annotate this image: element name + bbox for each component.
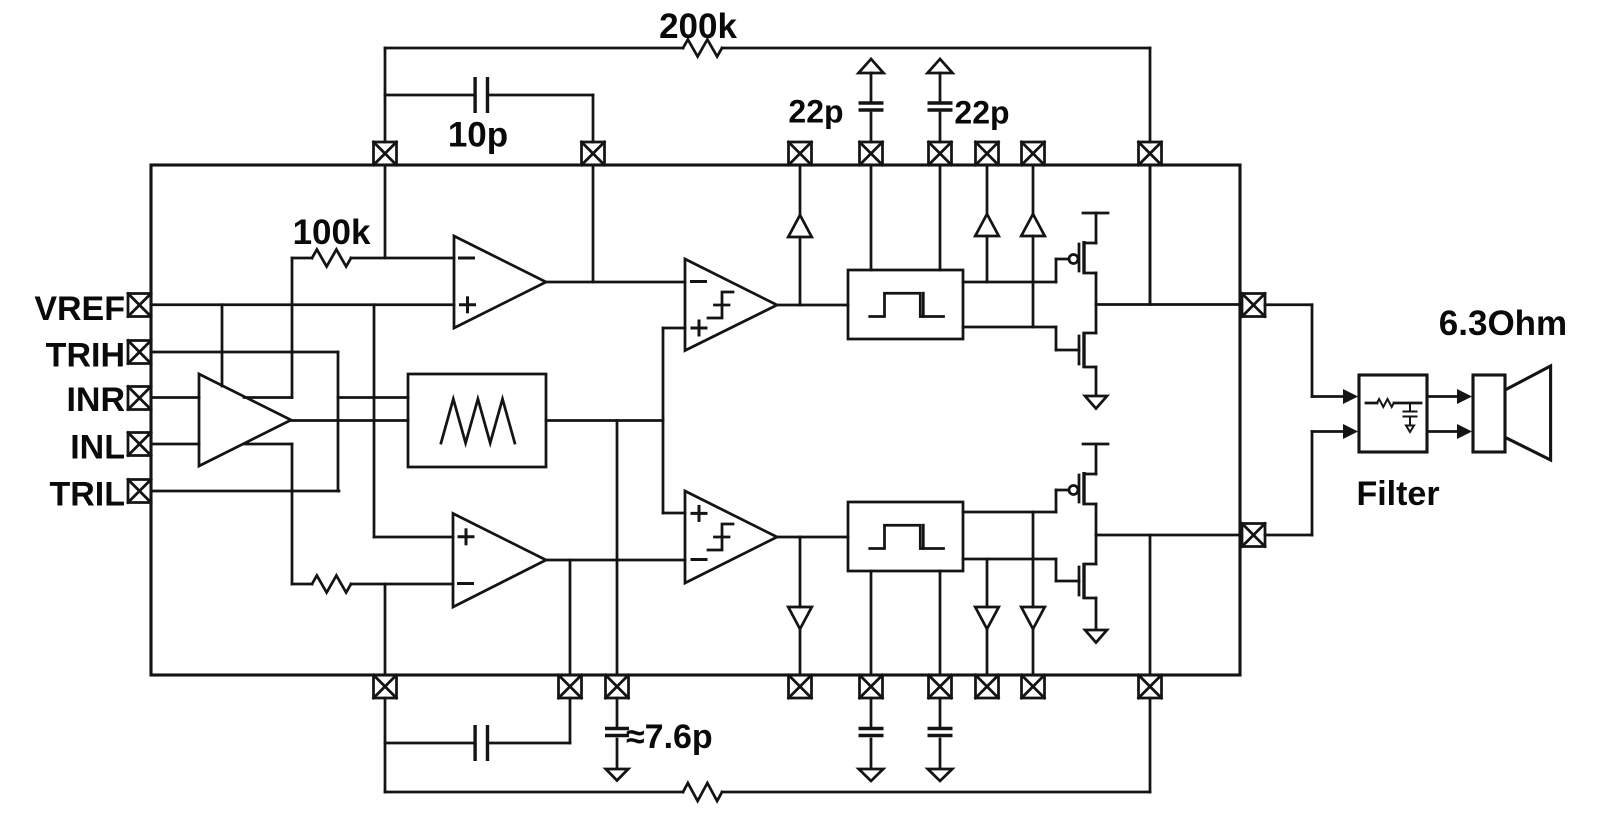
pin top opamp-out R: [582, 142, 605, 165]
wire comparator-out up x800: [799, 165, 802, 305]
pin top integrator R: [374, 142, 397, 165]
capacitor 7.6p: [605, 729, 629, 736]
wire gate-N pin drop x987 bottom: [986, 559, 989, 675]
wire filter to speaker top: [1427, 395, 1457, 398]
pin INR: [128, 387, 151, 410]
svg-text:200k: 200k: [659, 7, 737, 46]
transistor Q2 NMOS: [1079, 305, 1096, 396]
wire TRIH net: [151, 351, 338, 354]
wire U4 output: [777, 304, 848, 307]
wire x940 into pulse box: [939, 165, 942, 270]
wire to bottom comparator plus: [663, 512, 685, 515]
wire stem x871 upper: [870, 73, 873, 101]
supply rail top bridge: [1083, 213, 1108, 243]
pin bottom comparator-out L: [789, 675, 812, 698]
wire x871 cap leg: [870, 698, 873, 727]
ground 7.6p: [606, 769, 629, 781]
wire TRIL net: [151, 490, 339, 493]
pulse glyph bottom: [870, 525, 944, 548]
resistor bottom 200k mirror: [683, 783, 722, 801]
wire sawtooth to comparators vertical x663: [662, 328, 665, 513]
pin OUTR right edge: [1242, 294, 1265, 317]
pulse glyph top: [870, 293, 944, 316]
wire x940 cap to ground: [939, 739, 942, 768]
wire 100k to opamp minus: [292, 257, 454, 260]
wire top NMOS gate net: [963, 327, 1079, 350]
pin bottom opamp-out L: [559, 675, 582, 698]
resistor lower 100k: [312, 576, 351, 593]
filter internal ground: [1406, 426, 1414, 433]
wire x940 below pulse box: [939, 571, 942, 675]
arrow into filter top: [1343, 389, 1358, 404]
wire bridge-out pin drop x1148 top: [1149, 165, 1152, 305]
filter box: [1359, 375, 1427, 452]
pin top comparator-out R: [789, 142, 812, 165]
wire 7.6p cap to ground: [616, 739, 619, 768]
wire OUTL to filter: [1265, 432, 1343, 536]
pin INL: [128, 433, 151, 456]
wire lower resistor left leg: [244, 444, 292, 584]
wire comparator-out down x800: [799, 537, 802, 675]
transistor Q3 PMOS: [1069, 472, 1096, 535]
wire x871 cap to ground: [870, 739, 873, 768]
arrow into filter bottom: [1343, 424, 1358, 439]
wire x570 pin to opamp output: [569, 560, 572, 675]
wire x940 cap leg: [939, 698, 942, 727]
wire bottom cap branch: [385, 698, 570, 743]
svg-text:100k: 100k: [293, 213, 371, 252]
wire VREF to input-amp bias: [221, 305, 224, 386]
pin top gate-P R: [976, 142, 999, 165]
wire bottom bridge output: [1096, 534, 1240, 537]
wire U5 output: [777, 536, 848, 539]
arrow up at pin x871: [859, 59, 884, 73]
wire bottom feedback 200k mirror: [385, 791, 1150, 794]
svg-text:INL: INL: [70, 429, 125, 467]
pin VREF: [128, 294, 151, 317]
wire bridge-out pin rise x1148 bottom: [1149, 535, 1152, 675]
wire x617 below pin: [616, 698, 619, 727]
wire stem x871 lower: [870, 113, 873, 142]
filter internal resistor: [1366, 399, 1421, 407]
wire top bridge output: [1096, 303, 1240, 306]
pin OUTL right edge: [1242, 524, 1265, 547]
wire lower resistor to opamp minus: [292, 583, 453, 586]
arrow up at pin x940: [928, 59, 953, 73]
wire bottom PMOS gate net: [963, 490, 1069, 512]
wire 200k feedback top: [385, 47, 1150, 50]
sawtooth waveform glyph: [441, 399, 515, 443]
wire x871 into pulse box: [870, 165, 873, 270]
pin bottom sawtooth: [606, 675, 629, 698]
ground bottom bridge: [1085, 630, 1107, 643]
capacitor 22p left: [859, 103, 884, 110]
wire U2 output: [546, 281, 685, 284]
pin bottom pulse-b L: [929, 675, 952, 698]
wire sawtooth output: [546, 419, 663, 422]
wire node A vertical x385 top: [384, 48, 387, 258]
pin top pulse-a R: [860, 142, 883, 165]
wire INL net: [151, 443, 199, 446]
svg-text:22p: 22p: [954, 95, 1009, 131]
svg-text:22p: 22p: [788, 94, 843, 130]
arrow into speaker bottom: [1457, 424, 1472, 439]
transistor Q1 PMOS: [1069, 241, 1096, 305]
speaker LS1: [1473, 366, 1551, 460]
svg-text:Filter: Filter: [1356, 475, 1439, 513]
wire INR net: [151, 396, 199, 399]
comparator U4 (schmitt): [685, 259, 777, 351]
wire TRIH-TRIL vertical x338: [337, 352, 340, 491]
capacitor 22p right: [928, 103, 953, 110]
wire sawtooth upper input: [338, 396, 408, 399]
pin TRIH: [128, 341, 151, 364]
pin bottom integrator L: [374, 675, 397, 698]
wire x1150 bottom to pin: [1149, 698, 1152, 792]
filter internal capacitor: [1404, 403, 1417, 425]
ground top bridge: [1085, 396, 1107, 409]
svg-text:6.3Ohm: 6.3Ohm: [1439, 304, 1567, 343]
pin top bridge-out R: [1139, 142, 1162, 165]
wire top PMOS gate net: [963, 259, 1069, 282]
wire U3 output: [546, 559, 685, 562]
pulse generator box top: [848, 270, 963, 339]
svg-text:VREF: VREF: [34, 290, 125, 328]
wire gate-P pin drop x1033 bottom: [1032, 512, 1035, 675]
resistor 100k: [312, 250, 351, 267]
capacitor bottom 10p mirror: [475, 725, 487, 761]
op-amp U2: [454, 236, 546, 328]
wire vertical x593 to op-amp output: [592, 165, 595, 282]
resistor 200k: [683, 40, 722, 57]
arrow down at x800: [788, 607, 812, 629]
wire stem x940 upper: [939, 73, 942, 101]
arrow up at x800: [788, 215, 812, 237]
op-amp U3: [453, 514, 546, 608]
pin top pulse-b R: [929, 142, 952, 165]
comparator U5 (schmitt): [685, 491, 777, 583]
wire OUTR to filter: [1265, 305, 1343, 397]
wire sawtooth node down x617: [616, 421, 619, 676]
arrow down at x987: [975, 607, 999, 629]
wire 100k left leg: [244, 258, 292, 398]
wire filter to speaker bottom: [1427, 430, 1457, 433]
wire x385 bottom leg: [384, 584, 387, 792]
IC boundary box: [151, 165, 1240, 675]
ground x871: [859, 769, 884, 781]
svg-text:10p: 10p: [448, 116, 508, 155]
wire to top comparator plus: [663, 327, 685, 330]
wire 10p cap branch: [385, 95, 593, 142]
wire bottom NMOS gate net: [963, 559, 1079, 581]
wire gate-N pin drop x1033: [1032, 165, 1035, 327]
wire input-amp output to sawtooth: [291, 419, 408, 422]
capacitor bottom 22p left: [859, 729, 884, 736]
wire x871 below pulse box: [870, 571, 873, 675]
input amplifier U1: [199, 374, 291, 466]
pin bottom gate-N L: [976, 675, 999, 698]
arrow into speaker top: [1457, 389, 1472, 404]
wire VREF down to lower opamp: [374, 305, 453, 537]
supply rail bottom bridge: [1083, 444, 1108, 474]
pin top gate-N R: [1022, 142, 1045, 165]
pin bottom gate-P L: [1022, 675, 1045, 698]
wire stem x940 lower: [939, 113, 942, 142]
pin bottom bridge-out L: [1139, 675, 1162, 698]
sawtooth generator box: [408, 374, 546, 467]
capacitor 10p: [475, 77, 487, 113]
transistor Q4 NMOS: [1079, 535, 1096, 629]
pin TRIL: [128, 480, 151, 503]
arrow up at x1033: [1021, 214, 1045, 236]
arrow down at x1033: [1021, 607, 1045, 629]
wire vertical x1150 top: [1149, 48, 1152, 305]
wire VREF net: [151, 303, 454, 306]
svg-text:TRIL: TRIL: [49, 476, 125, 514]
svg-text:≈7.6p: ≈7.6p: [626, 718, 713, 756]
svg-text:TRIH: TRIH: [46, 337, 125, 375]
arrow up at x987: [975, 214, 999, 236]
pulse generator box bottom: [848, 502, 963, 571]
ground x940: [928, 769, 953, 781]
pin bottom pulse-a L: [860, 675, 883, 698]
capacitor bottom 22p right: [928, 729, 953, 736]
svg-text:INR: INR: [66, 381, 125, 419]
wire gate-P pin drop x987: [986, 165, 989, 282]
